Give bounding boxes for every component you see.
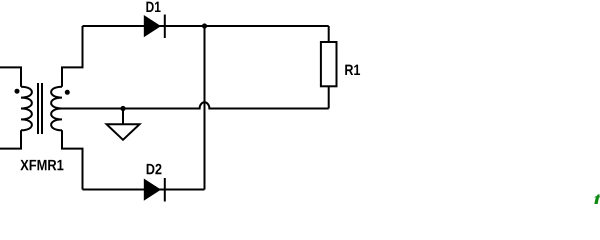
- transformer XFMR1 primary bottom lead: [0, 130, 21, 148]
- wire center tap rail with hop over output wire: [62, 102, 329, 108]
- transformer XFMR1 secondary winding: [51, 87, 62, 131]
- ground symbol: [107, 124, 140, 140]
- wire secondary bottom lead: [62, 130, 83, 189]
- ground stub wire: [122, 109, 124, 125]
- resistor R1 body: [321, 42, 337, 86]
- diode D1 cathode bar: [164, 15, 166, 39]
- wire output vertical from junction: [204, 26, 206, 190]
- label D2: [147, 164, 162, 174]
- resistor R1 top lead: [328, 26, 330, 42]
- label XFMR1: [20, 160, 63, 170]
- watermark green letter t: [594, 194, 600, 205]
- transformer XFMR1 secondary phase dot: [65, 90, 70, 95]
- diode D2 triangle: [144, 179, 161, 201]
- transformer XFMR1 primary winding: [21, 87, 32, 131]
- junction node dot center tap / ground: [120, 106, 125, 111]
- resistor R1 bottom lead: [328, 86, 330, 108]
- diode D2 cathode bar: [164, 178, 166, 202]
- transformer XFMR1 primary top lead: [0, 67, 21, 86]
- wire bottom rail: [83, 189, 205, 191]
- junction node dot top (D1 cathode / output): [202, 23, 207, 28]
- wire top rail node A: [83, 25, 329, 27]
- label R1: [345, 65, 360, 75]
- wire secondary top lead to node A: [62, 26, 83, 87]
- transformer XFMR1 primary phase dot: [15, 89, 20, 94]
- label D1: [146, 2, 160, 12]
- transformer XFMR1 core line 1: [37, 83, 39, 134]
- transformer XFMR1 core line 2: [41, 83, 43, 134]
- diode D1 triangle: [144, 15, 161, 37]
